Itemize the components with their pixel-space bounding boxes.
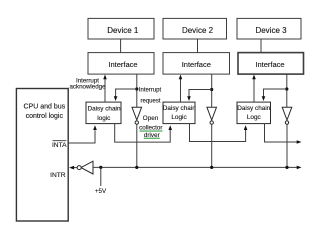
svg-text:control logic: control logic xyxy=(26,113,64,120)
svg-text:+5V: +5V xyxy=(95,188,107,195)
svg-text:Device 3: Device 3 xyxy=(255,26,287,35)
junction node driver2/INTR xyxy=(210,166,213,169)
INTA pin label (with overbar) xyxy=(52,141,67,149)
svg-text:CPU and bus: CPU and bus xyxy=(23,103,65,110)
svg-text:INTR: INTR xyxy=(50,172,66,179)
label interrupt request xyxy=(139,88,162,105)
junction node on interface3 request wire xyxy=(285,87,288,90)
junction node +5V tap xyxy=(99,166,102,169)
svg-text:Open: Open xyxy=(143,115,159,122)
INTA wire from CPU into daisy1 (arrow up) xyxy=(68,125,97,143)
svg-text:Logic: Logic xyxy=(171,114,187,121)
svg-text:request: request xyxy=(140,99,160,105)
device 1 box xyxy=(88,18,154,39)
wire daisy3 output to right (arrow right) xyxy=(265,124,302,144)
wire daisy2 to interface2 (arrow up) xyxy=(179,75,183,103)
daisy chain logic 1 box xyxy=(86,102,121,124)
svg-text:logic: logic xyxy=(97,115,111,122)
junction node on interface1 request wire xyxy=(135,87,138,90)
interface 2 box xyxy=(163,53,230,75)
svg-text:Interrupt: Interrupt xyxy=(139,88,162,94)
svg-text:Daisy chain: Daisy chain xyxy=(163,105,196,112)
svg-text:Interface: Interface xyxy=(108,60,137,69)
INTR buffer (triangle + bubble, pointing left) xyxy=(77,161,93,174)
wire branch into daisy1 top (arrow down) xyxy=(114,89,137,101)
junction node on interface2 request wire xyxy=(210,88,213,91)
wire device3 to interface3 xyxy=(260,39,262,53)
device 3 box xyxy=(237,18,301,39)
wire daisy3 to interface3 (arrow up) xyxy=(252,75,256,103)
svg-text:Daisy chain: Daisy chain xyxy=(87,106,120,113)
open collector driver 3 (triangle + bubble) xyxy=(282,107,292,124)
open collector driver 1 (triangle + bubble) xyxy=(132,107,142,124)
wire interface2 to driver2 xyxy=(211,74,213,107)
junction node driver1/INTR xyxy=(135,166,138,169)
wire daisy1 output to daisy2 (arrow up) xyxy=(115,124,172,143)
interface 1 box xyxy=(88,53,154,75)
INTR line (arrow right at end) xyxy=(93,166,302,170)
device 2 box xyxy=(163,18,227,39)
wire driver2 output to INTR line xyxy=(211,124,213,167)
junction node driver3/INTR xyxy=(285,166,288,169)
svg-text:Logc: Logc xyxy=(247,114,262,121)
svg-text:acknowledge: acknowledge xyxy=(69,84,106,91)
wire driver1 output to INTR line xyxy=(136,124,138,167)
svg-text:INTA: INTA xyxy=(52,142,67,149)
open collector driver 2 (triangle + bubble) xyxy=(207,107,217,124)
daisy chain logic 3 box xyxy=(237,102,271,124)
label interrupt acknowledge xyxy=(69,77,106,90)
+5V pull-up stub xyxy=(100,167,102,186)
svg-text:Device 2: Device 2 xyxy=(182,26,214,35)
INTR arrow into CPU xyxy=(69,166,77,170)
svg-text:Interface: Interface xyxy=(255,60,284,69)
wire daisy1 to interface1 (arrow up) xyxy=(103,75,107,103)
daisy chain logic 2 box xyxy=(163,102,196,124)
svg-text:Device 1: Device 1 xyxy=(107,26,139,35)
wire branch into daisy2 top (arrow down) xyxy=(187,90,212,102)
CPU and bus control logic box xyxy=(16,89,68,222)
wire daisy2 output to daisy3 (arrow up) xyxy=(190,124,248,142)
interface 3 box xyxy=(238,53,304,75)
wire interface1 to driver1 xyxy=(136,74,138,107)
wire driver3 output to INTR line xyxy=(286,124,288,167)
svg-text:Interface: Interface xyxy=(182,60,211,69)
wire branch into daisy3 top (arrow down) xyxy=(262,89,287,101)
label open collector driver xyxy=(139,115,162,139)
wire interface3 to driver3 xyxy=(286,74,288,107)
svg-text:Daisy chain: Daisy chain xyxy=(237,105,270,112)
wire device1 to interface1 xyxy=(120,39,122,53)
wire device2 to interface2 xyxy=(197,39,199,53)
